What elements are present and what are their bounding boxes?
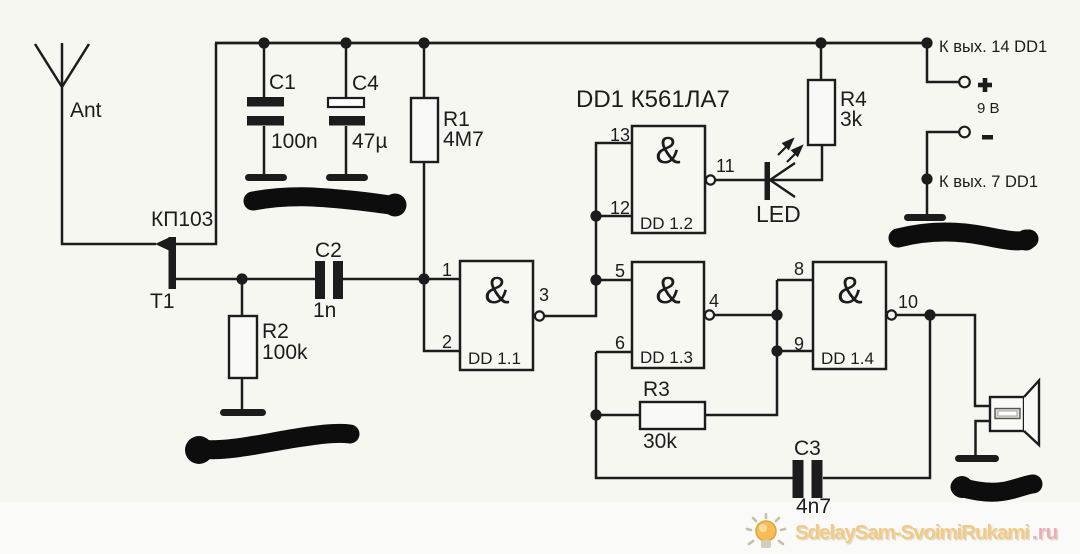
svg-text:C4: C4: [352, 72, 379, 95]
svg-text:3k: 3k: [840, 108, 863, 131]
svg-text:Ant: Ant: [70, 99, 102, 122]
svg-text:2: 2: [442, 332, 452, 352]
svg-text:11: 11: [716, 156, 735, 176]
svg-text:&: &: [837, 270, 862, 312]
svg-text:R2: R2: [262, 320, 289, 343]
svg-text:DD 1.4: DD 1.4: [821, 349, 874, 368]
svg-text:3: 3: [539, 285, 549, 305]
svg-text:12: 12: [610, 198, 630, 218]
svg-text:4M7: 4M7: [443, 128, 484, 151]
svg-text:DD 1.1: DD 1.1: [468, 349, 521, 368]
svg-text:DD1 К561ЛА7: DD1 К561ЛА7: [576, 86, 730, 113]
svg-text:4n7: 4n7: [796, 495, 831, 518]
svg-text:T1: T1: [150, 290, 175, 313]
svg-text:100n: 100n: [271, 130, 318, 153]
svg-text:8: 8: [794, 259, 804, 279]
svg-text:47µ: 47µ: [352, 130, 387, 153]
svg-text:5: 5: [615, 261, 625, 281]
svg-text:&: &: [655, 130, 680, 172]
svg-text:К вых. 14 DD1: К вых. 14 DD1: [939, 38, 1047, 56]
svg-text:&: &: [484, 270, 509, 312]
svg-text:C1: C1: [269, 71, 296, 94]
svg-text:13: 13: [610, 125, 630, 145]
svg-text:9: 9: [794, 334, 804, 354]
svg-text:1: 1: [442, 260, 452, 280]
svg-text:100k: 100k: [262, 341, 308, 364]
svg-text:9 В: 9 В: [977, 100, 1000, 117]
svg-text:10: 10: [898, 292, 918, 312]
svg-text:30k: 30k: [643, 430, 677, 453]
svg-text:C2: C2: [315, 239, 342, 262]
svg-text:1n: 1n: [313, 299, 336, 322]
svg-text:SdelaySam-SvoimiRukami: SdelaySam-SvoimiRukami: [795, 521, 1030, 544]
svg-text:4: 4: [709, 291, 719, 311]
svg-text:КП103: КП103: [151, 208, 213, 231]
svg-text:К вых. 7 DD1: К вых. 7 DD1: [939, 173, 1038, 191]
svg-text:DD 1.2: DD 1.2: [640, 214, 693, 233]
svg-text:R3: R3: [643, 378, 670, 401]
svg-text:.ru: .ru: [1032, 521, 1058, 544]
svg-text:DD 1.3: DD 1.3: [640, 348, 693, 367]
svg-text:LED: LED: [756, 201, 801, 227]
svg-text:C3: C3: [794, 437, 821, 460]
svg-text:6: 6: [615, 333, 625, 353]
svg-text:&: &: [655, 270, 680, 312]
